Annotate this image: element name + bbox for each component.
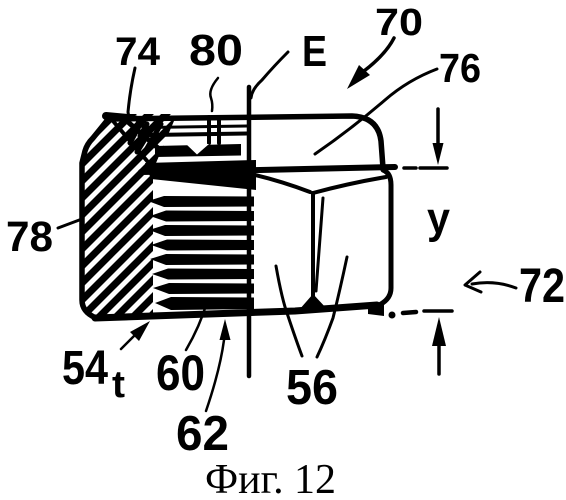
svg-text:80: 80 bbox=[189, 26, 243, 75]
svg-text:60: 60 bbox=[156, 345, 205, 401]
svg-text:72: 72 bbox=[519, 260, 565, 313]
svg-text:E: E bbox=[302, 27, 327, 76]
hex chamfer right bbox=[313, 177, 386, 193]
vertical 80 line 2 bbox=[217, 117, 221, 143]
svg-text:78: 78 bbox=[6, 213, 53, 261]
arrowheads bbox=[130, 65, 446, 346]
arrow 54 line bbox=[121, 334, 136, 349]
svg-text:54: 54 bbox=[62, 342, 108, 395]
node E section line bbox=[247, 87, 252, 376]
threads bbox=[148, 196, 254, 310]
svg-text:y: y bbox=[427, 194, 450, 243]
arrowhead 70 bbox=[347, 65, 370, 89]
svg-text:t: t bbox=[112, 364, 125, 406]
corner bottom triangle bbox=[299, 294, 327, 310]
arrowhead 54 bbox=[130, 321, 150, 341]
top-left corner blob bbox=[106, 116, 128, 118]
leader 80 bbox=[210, 78, 218, 111]
leader 76 bbox=[315, 69, 437, 154]
hex right edge bbox=[377, 170, 391, 306]
hex corner double line bbox=[316, 198, 323, 291]
svg-text:56: 56 bbox=[286, 361, 338, 415]
hex chamfer left bbox=[251, 174, 310, 192]
dim y top line bbox=[436, 109, 440, 147]
cap/hex separation line bbox=[141, 167, 395, 172]
thread band C with notch bbox=[155, 144, 241, 157]
arrowhead y top bbox=[433, 143, 444, 165]
leader 78 bbox=[58, 219, 82, 228]
svg-text:62: 62 bbox=[176, 407, 229, 461]
svg-text:70: 70 bbox=[375, 2, 423, 44]
arrow 72 bbox=[472, 283, 516, 288]
bottom-right corner blob bbox=[368, 304, 384, 316]
nut top edge bbox=[110, 116, 383, 168]
leader E bbox=[251, 52, 288, 98]
leader 56 right bbox=[317, 257, 347, 357]
bottom edge bbox=[95, 305, 377, 318]
top thread wedge bbox=[145, 160, 256, 190]
dim y bottom line bbox=[424, 309, 452, 313]
cap inner line A bbox=[147, 126, 247, 128]
hex corner line bbox=[311, 193, 315, 296]
arrowhead 62 bbox=[220, 319, 231, 340]
svg-text:74: 74 bbox=[115, 30, 161, 74]
cap inner line B bbox=[150, 134, 247, 136]
dash-dot dot bbox=[389, 312, 396, 319]
leader 56 left bbox=[276, 266, 302, 356]
arrowhead y bottom bbox=[432, 317, 446, 346]
svg-text:Фиг. 12: Фиг. 12 bbox=[205, 457, 336, 500]
left profile bbox=[82, 117, 110, 318]
leader 74 bbox=[128, 68, 135, 124]
arrow 62 line bbox=[206, 340, 224, 411]
hatching bbox=[0, 100, 452, 330]
svg-text:76: 76 bbox=[439, 45, 481, 91]
arrow 70 bbox=[364, 38, 394, 71]
corner scribble bbox=[128, 118, 161, 152]
leader 60 bbox=[186, 302, 207, 350]
vertical 80 line 1 bbox=[207, 117, 211, 143]
inner chamfer slant bbox=[113, 121, 148, 162]
